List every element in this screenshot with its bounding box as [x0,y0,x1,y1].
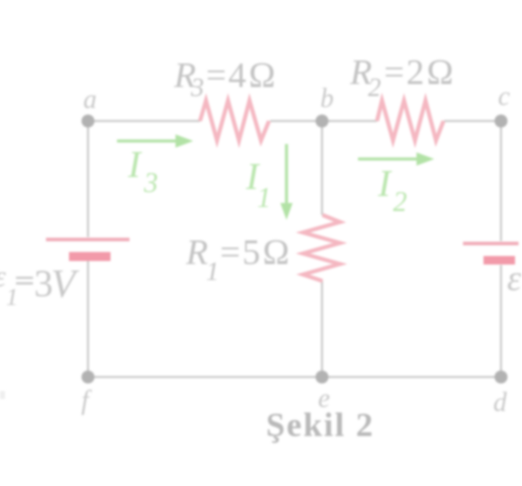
svg-text:I: I [377,163,393,205]
svg-text:Şekil 2: Şekil 2 [266,407,375,444]
svg-text:I: I [127,144,143,186]
svg-text:b: b [320,83,334,113]
svg-text:1: 1 [6,285,18,311]
svg-text:d: d [493,387,507,417]
svg-text:1: 1 [257,183,271,214]
svg-text:a: a [83,84,97,114]
svg-text:=4Ω: =4Ω [206,55,278,95]
svg-text:1: 1 [206,257,219,286]
svg-text:=5Ω: =5Ω [220,232,292,272]
svg-text:c: c [498,81,510,111]
svg-text:3: 3 [143,168,158,199]
svg-text:=2Ω: =2Ω [384,52,456,92]
svg-text:f: f [81,385,92,415]
svg-text:2: 2 [393,187,407,218]
svg-text:ε: ε [507,258,522,298]
svg-text:2: 2 [368,73,381,102]
svg-text:V: V [51,261,80,306]
svg-text:R: R [185,232,208,272]
svg-text:3: 3 [190,73,204,102]
